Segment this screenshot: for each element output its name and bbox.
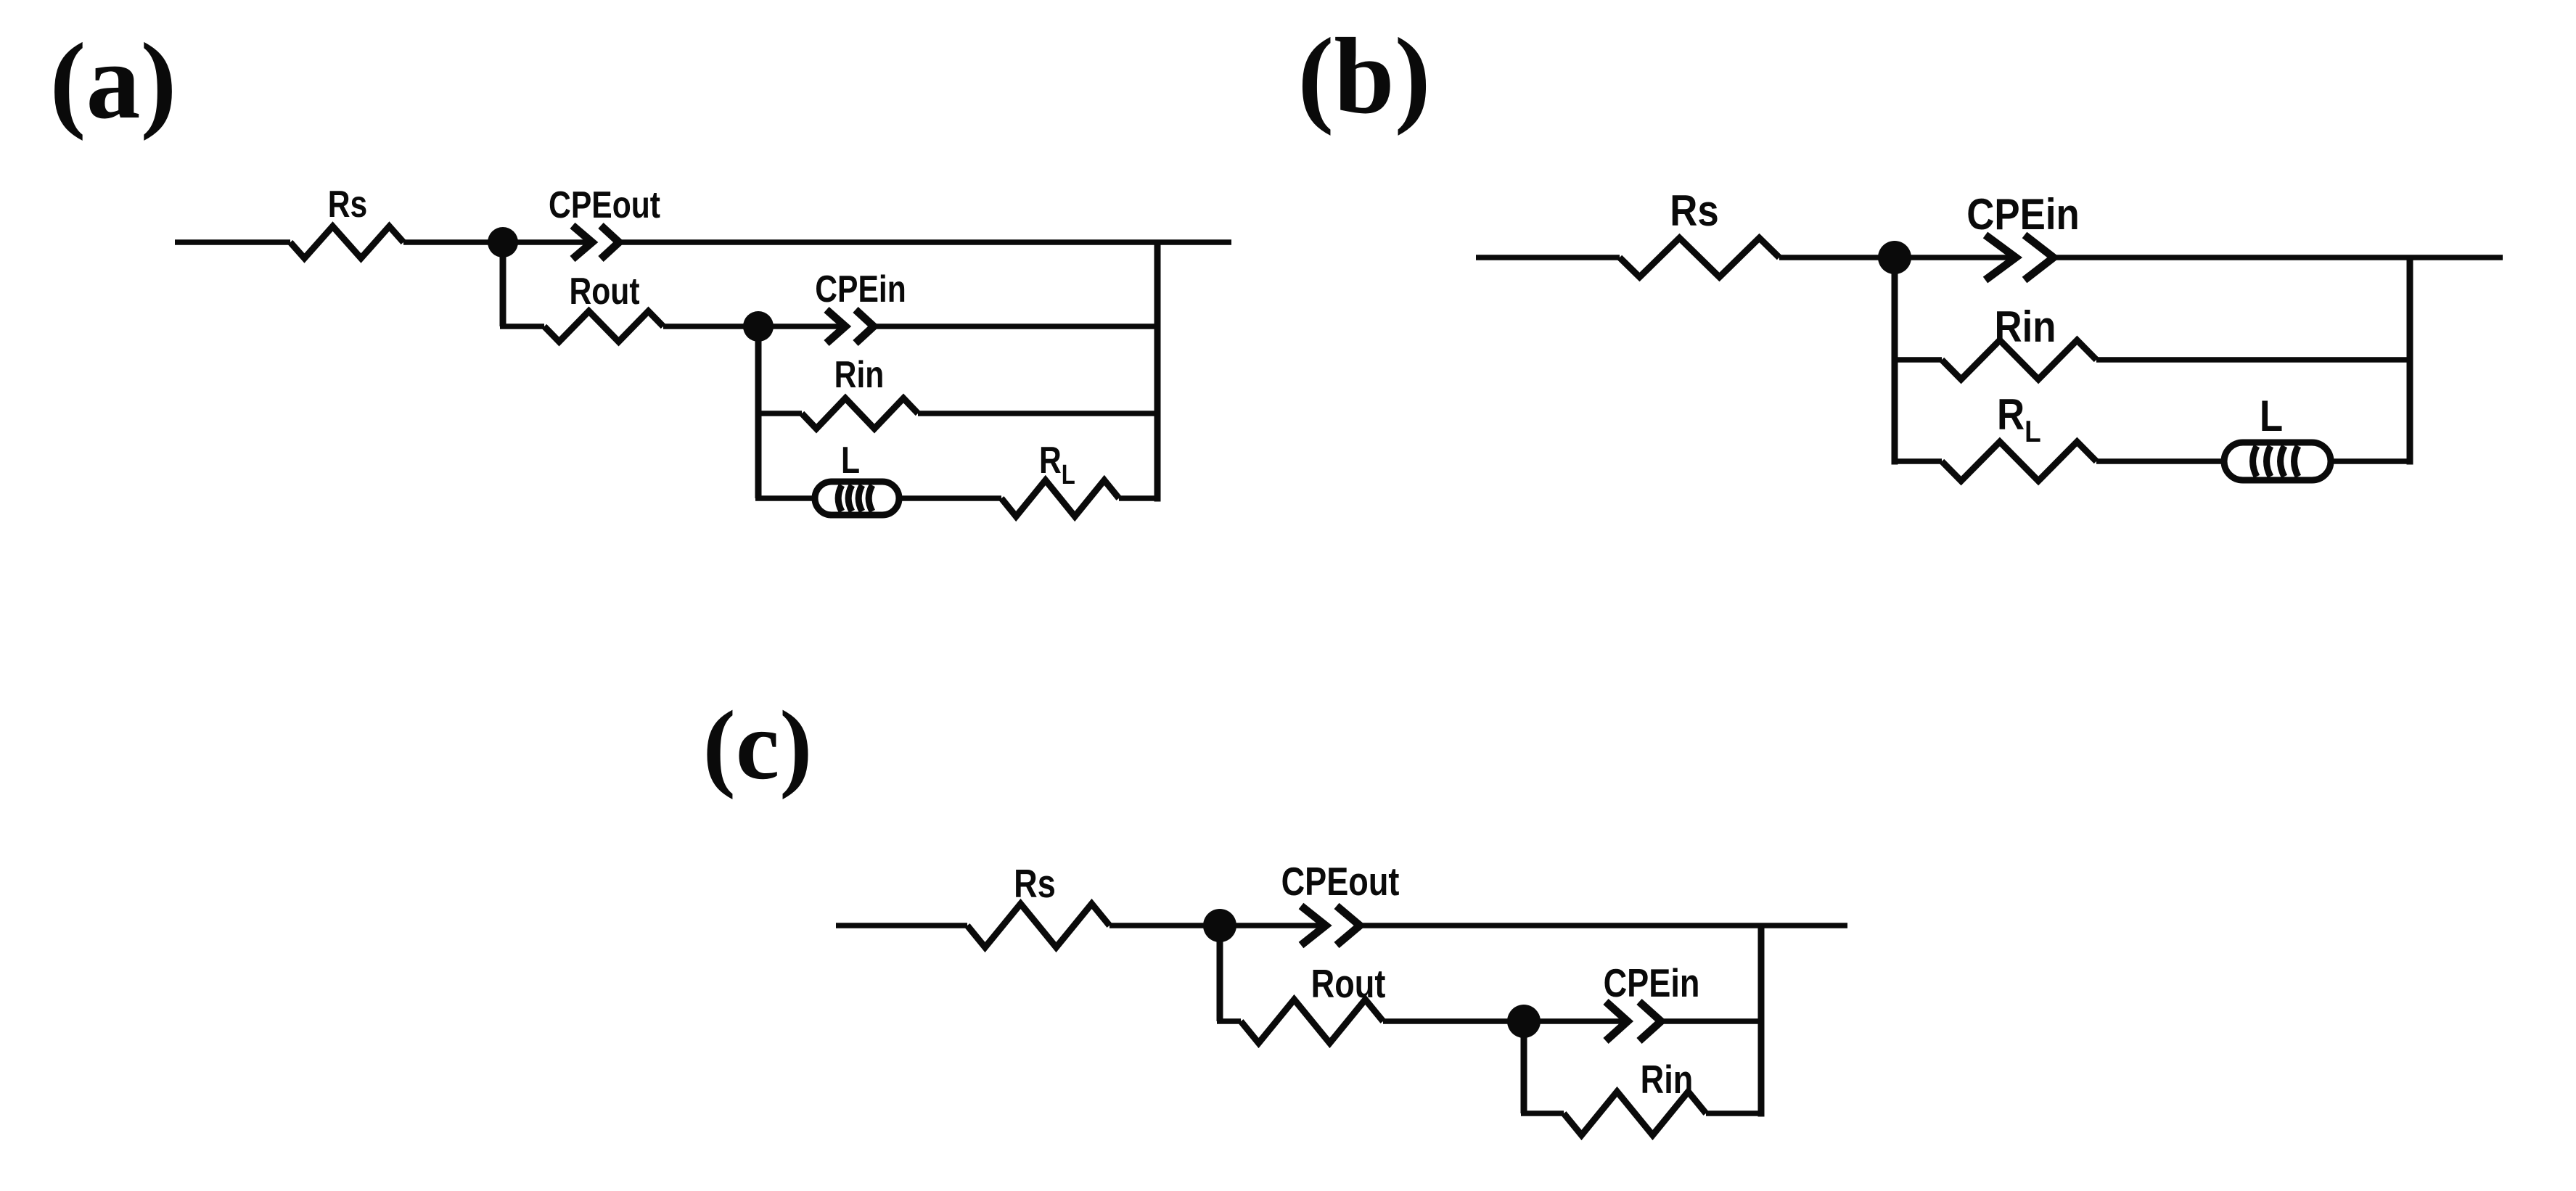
svg-text:Rout: Rout bbox=[1311, 961, 1386, 1006]
svg-text:CPEin: CPEin bbox=[815, 268, 906, 310]
svg-text:(c): (c) bbox=[703, 691, 813, 800]
svg-text:Rout: Rout bbox=[569, 271, 639, 313]
svg-text:Rs: Rs bbox=[1014, 861, 1056, 906]
svg-text:(b): (b) bbox=[1297, 16, 1430, 136]
svg-text:Rin: Rin bbox=[1641, 1057, 1694, 1102]
svg-text:(a): (a) bbox=[50, 21, 177, 141]
svg-text:Rs: Rs bbox=[328, 184, 368, 226]
svg-text:Rs: Rs bbox=[1670, 186, 1718, 235]
svg-text:Rin: Rin bbox=[834, 354, 885, 396]
svg-text:CPEin: CPEin bbox=[1966, 190, 2079, 239]
svg-text:L: L bbox=[841, 440, 860, 482]
svg-text:CPEout: CPEout bbox=[1281, 859, 1400, 904]
svg-text:CPEin: CPEin bbox=[1604, 960, 1700, 1005]
svg-text:Rin: Rin bbox=[1994, 302, 2056, 351]
svg-text:CPEout: CPEout bbox=[549, 184, 660, 226]
svg-text:L: L bbox=[2260, 392, 2283, 440]
